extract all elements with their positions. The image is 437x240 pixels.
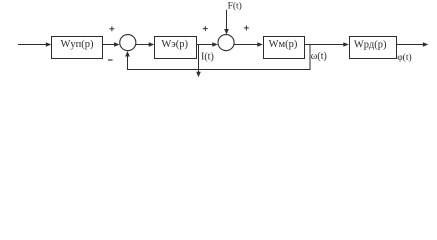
svg-text:Wм(р): Wм(р) — [269, 39, 298, 50]
wire Wup to summer1 — [103, 42, 120, 47]
wire We to summer2 — [197, 42, 218, 47]
minus sign at summer1 — [108, 59, 113, 61]
summer2 circle — [218, 35, 234, 51]
wire feedback from omega node down, left, up into summer1 — [128, 45, 311, 70]
svg-text:φ(t): φ(t) — [397, 52, 411, 63]
plus sign left of summer2 — [203, 26, 208, 31]
wire summer1 to We — [136, 42, 154, 47]
plus sign right of summer2 — [244, 25, 249, 30]
block We(p) — [155, 37, 197, 59]
svg-text:Wэ(р): Wэ(р) — [161, 39, 188, 50]
block Wm(p) — [264, 37, 305, 59]
svg-text:ω(t): ω(t) — [311, 51, 327, 62]
plus sign at summer1 — [109, 26, 114, 31]
svg-text:Wуп(р): Wуп(р) — [60, 39, 94, 50]
block Wrd(p) — [350, 37, 397, 59]
block Wup(p) — [52, 37, 103, 59]
svg-text:I(t): I(t) — [201, 52, 214, 63]
svg-text:Wрд(р): Wрд(р) — [354, 39, 387, 50]
wire F(t) arrow down into summer2 — [224, 10, 229, 35]
wire output arrow phi — [397, 42, 428, 47]
summer1 circle — [120, 35, 136, 51]
wire summer2 to Wm — [234, 42, 263, 47]
svg-text:F(t): F(t) — [228, 0, 242, 11]
wire input arrow into Wup — [18, 42, 51, 47]
wire Wm to Wrd — [305, 42, 349, 47]
wire I(t) branch arrow down — [196, 45, 201, 78]
